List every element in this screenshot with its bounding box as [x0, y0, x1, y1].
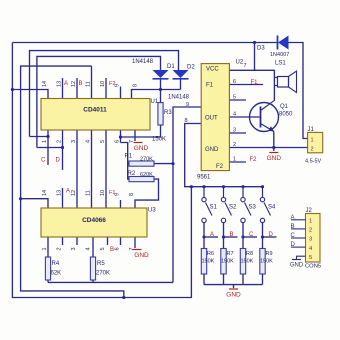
svg-text:4: 4: [86, 247, 92, 250]
wire CD4011 pin 9 stub: [120, 87, 122, 99]
svg-text:S1: S1: [210, 205, 218, 211]
wire U2 pin 1 stub net F2: [229, 161, 246, 163]
svg-text:D: D: [56, 158, 61, 164]
wire riser to R1 left: [128, 163, 129, 165]
wire CD4066 pin 14 feed: [21, 199, 48, 208]
resistor R5 270K: [90, 257, 95, 280]
node junction pin2: [61, 146, 64, 149]
wire CD4066 pin 4 to R5: [92, 237, 94, 257]
svg-text:B: B: [230, 232, 234, 238]
wire bottom rail R4 R5: [48, 281, 173, 283]
node junction rail S3: [241, 185, 244, 188]
wire node C tick: [243, 236, 257, 238]
svg-text:R9: R9: [266, 251, 273, 257]
wire VCC top rail: [12, 42, 277, 44]
wire R8 bottom: [242, 274, 244, 285]
svg-text:CON5: CON5: [305, 264, 321, 270]
wire switch resistor ground rail: [204, 284, 263, 286]
svg-text:1: 1: [233, 157, 236, 163]
svg-text:7: 7: [129, 247, 135, 250]
wire node A tick: [204, 236, 218, 238]
wire J2 pin2 stub net B: [291, 228, 306, 230]
svg-text:R7: R7: [227, 251, 234, 257]
svg-text:CD4011: CD4011: [83, 107, 107, 114]
svg-text:A: A: [291, 215, 295, 221]
svg-text:S3: S3: [249, 205, 257, 211]
node junction R1 right: [171, 162, 174, 165]
wire R9 bottom: [262, 274, 264, 285]
wire net pin11/CD4066-pin14 vertical x=20.6: [21, 66, 124, 297]
wire S1 to node: [203, 223, 205, 249]
wire outer left VCC loop down and to switch rail riser: [12, 43, 191, 298]
wire U2 pin 6 stub net F1: [229, 84, 263, 86]
wire CD4066 pin 7 stub to ground: [134, 237, 136, 248]
svg-text:D3: D3: [257, 46, 265, 52]
svg-text:10: 10: [100, 81, 106, 87]
wire U2 pin 2 to J1 pin 2: [229, 147, 307, 149]
svg-text:R3: R3: [164, 110, 172, 116]
svg-text:LS1: LS1: [275, 61, 286, 67]
svg-text:5: 5: [309, 255, 312, 261]
ground CD4011 pin7: [134, 143, 149, 153]
svg-text:8: 8: [133, 84, 139, 87]
wire J2 pin1 stub net A: [291, 219, 306, 221]
switch S2: [221, 187, 237, 223]
svg-text:A: A: [210, 232, 214, 238]
wire CD4011 pin4 to CD4066 pin11: [91, 130, 93, 208]
svg-text:C: C: [249, 232, 254, 238]
svg-text:R2: R2: [128, 171, 136, 177]
wire U2 pin 5 stub: [229, 99, 246, 101]
svg-text:8: 8: [129, 193, 135, 196]
svg-text:270K: 270K: [140, 157, 153, 163]
svg-text:6: 6: [115, 247, 121, 250]
wire R1 R2 left riser: [121, 143, 130, 180]
IC U3 CD4066: [41, 208, 147, 237]
wire R2 right to CD4066 pin 8: [135, 179, 159, 208]
wire CD4011 pin 11 stub: [91, 66, 93, 98]
wire U2 pin 9: [173, 107, 201, 282]
svg-text:3: 3: [71, 140, 77, 143]
svg-text:150K: 150K: [202, 258, 215, 264]
wire CD4011 pin 2 stub with net D: [62, 130, 64, 170]
wire J2 pin3 stub net C: [291, 237, 306, 239]
wire S2 to node: [223, 223, 225, 249]
svg-text:J2: J2: [306, 208, 313, 214]
svg-text:B: B: [110, 247, 114, 253]
svg-text:GND: GND: [134, 252, 149, 259]
wire R7 bottom: [223, 274, 225, 285]
svg-text:150K: 150K: [221, 258, 234, 264]
wire J2 pin5 stub to ground: [297, 256, 306, 259]
wire R5 bottom lead: [92, 280, 94, 282]
switch S1: [202, 187, 218, 223]
svg-text:F1: F1: [206, 83, 214, 89]
wire U2 pin7 node to speaker: [255, 70, 275, 101]
diode D3 1N4007: [278, 36, 289, 50]
svg-text:D: D: [291, 242, 296, 248]
wire CD4011 pin5 to CD4066 pin10 net F1: [105, 130, 107, 208]
svg-text:8050: 8050: [279, 112, 293, 118]
resistor R4 62K: [45, 257, 50, 280]
node junction on bottom line: [122, 296, 125, 299]
svg-text:R8: R8: [246, 251, 253, 257]
svg-text:F2: F2: [250, 157, 258, 163]
resistor R1: [129, 161, 154, 166]
wire D2 cathode: [180, 79, 182, 90]
node junction C: [241, 235, 244, 238]
svg-text:A: A: [64, 81, 68, 87]
wire J2 pin4 stub net D: [291, 246, 306, 248]
svg-text:13: 13: [57, 190, 63, 196]
svg-text:11: 11: [86, 190, 92, 196]
wire CD4011 pin 1 stub with net C: [47, 130, 49, 165]
connector J1: [308, 132, 323, 152]
svg-text:150K: 150K: [241, 258, 254, 264]
wire U2 pin 7 VCC: [229, 43, 254, 71]
svg-text:7: 7: [129, 140, 135, 143]
ground J2 GND: [290, 260, 304, 269]
diode D2 1N4148: [173, 70, 189, 79]
svg-text:D2: D2: [187, 65, 195, 71]
svg-text:F1: F1: [109, 190, 115, 196]
node junction D1 cathode: [159, 88, 162, 91]
node junction rail S1: [202, 185, 205, 188]
wire top rail right segment to J1 riser: [289, 43, 308, 139]
wire node B tick: [224, 236, 238, 238]
wire CD4066 pin 2 stub: [62, 237, 64, 245]
svg-text:150K: 150K: [260, 258, 273, 264]
svg-text:S2: S2: [229, 205, 237, 211]
wire R1 right to U2 pin9 net: [154, 163, 173, 165]
svg-text:9: 9: [186, 102, 189, 108]
svg-text:12: 12: [71, 190, 77, 196]
resistor R3 150K: [158, 103, 163, 125]
svg-text:4.5-5V: 4.5-5V: [305, 159, 322, 165]
wire pin2 to riser: [37, 147, 63, 149]
svg-text:C: C: [291, 233, 296, 239]
svg-text:3: 3: [309, 237, 312, 243]
svg-text:2: 2: [57, 247, 63, 250]
switch S3: [241, 187, 257, 223]
svg-text:F1: F1: [251, 80, 259, 86]
svg-text:2: 2: [233, 142, 236, 148]
wire S4 to node: [262, 223, 264, 249]
ground switch resistors: [226, 289, 241, 299]
wire CD4011 pin 7 stub to ground: [134, 130, 136, 141]
svg-text:3: 3: [233, 128, 236, 134]
svg-text:4: 4: [233, 112, 236, 118]
svg-text:OUT: OUT: [205, 116, 218, 122]
transistor Q1 8050: [250, 101, 279, 132]
svg-text:Q1: Q1: [280, 104, 289, 110]
wire Q1 emitter to ground: [273, 132, 275, 152]
wire CD4011 pin 14 feed: [12, 90, 48, 99]
svg-text:5: 5: [100, 140, 106, 143]
svg-text:1: 1: [309, 219, 312, 225]
diode D1 1N4148: [153, 70, 169, 79]
wire pin1 to riser: [30, 136, 49, 138]
wire CD4011 pin 6 stub: [120, 130, 122, 143]
svg-text:1N4148: 1N4148: [168, 95, 190, 101]
svg-text:CD4066: CD4066: [82, 217, 106, 224]
node junction switch rail riser: [190, 185, 193, 188]
svg-text:14: 14: [42, 190, 48, 196]
svg-text:1: 1: [42, 247, 48, 250]
node junction B: [222, 235, 225, 238]
wire CD4066 pin 5 stub net B: [107, 237, 109, 245]
node junction D: [261, 235, 264, 238]
resistor R8: [240, 249, 253, 275]
svg-text:1N4148: 1N4148: [132, 59, 154, 65]
wire CD4011 pin 12 stub: [76, 78, 78, 99]
svg-text:R6: R6: [207, 251, 214, 257]
node junction rail S2: [222, 185, 225, 188]
svg-text:F2: F2: [109, 81, 115, 87]
ground Q1 emitter: [267, 153, 282, 163]
svg-text:GND: GND: [290, 263, 304, 269]
switch S4: [260, 187, 276, 223]
svg-text:2: 2: [309, 228, 312, 234]
node junction A: [202, 235, 205, 238]
svg-text:620K: 620K: [140, 172, 153, 178]
node junction rail S4: [261, 185, 264, 188]
node junction pin6: [119, 135, 122, 138]
svg-text:11: 11: [86, 81, 92, 87]
svg-text:GND: GND: [205, 147, 219, 153]
svg-text:J1: J1: [308, 127, 315, 133]
wire CD4011 pin3 to CD4066 pin12: [76, 130, 78, 208]
wire S3 to node: [242, 223, 244, 249]
svg-text:GND: GND: [267, 155, 282, 162]
svg-text:R1: R1: [125, 154, 133, 160]
resistor R2: [129, 177, 154, 182]
svg-text:3: 3: [71, 247, 77, 250]
svg-text:7: 7: [244, 63, 247, 69]
wire U2 pin 8 to switch rail: [185, 124, 263, 187]
svg-text:VCC: VCC: [206, 67, 219, 73]
wire CD4011 pin 13 stub: [62, 78, 64, 99]
svg-text:B: B: [291, 224, 295, 230]
svg-text:1N4007: 1N4007: [270, 52, 289, 58]
svg-text:C: C: [41, 158, 46, 164]
svg-text:6: 6: [115, 140, 121, 143]
IC U1 CD4011: [41, 99, 150, 131]
node junction pin1: [46, 135, 49, 138]
svg-text:D1: D1: [167, 64, 175, 70]
node junction pin14 feed: [11, 88, 14, 91]
wire CD4066 pin 9 stub: [120, 200, 122, 208]
svg-text:2: 2: [311, 147, 314, 153]
svg-text:R5: R5: [97, 261, 105, 267]
wire D2 anode net from CD4011 pin 1: [30, 51, 179, 137]
speaker LS1: [274, 71, 296, 93]
svg-text:1: 1: [311, 138, 314, 144]
svg-text:13: 13: [57, 81, 63, 87]
svg-text:5: 5: [233, 95, 236, 101]
wire R6 bottom: [203, 274, 205, 285]
wire CD4066 pin 6 stub: [120, 237, 122, 245]
wire CD4066 pin 3 stub: [76, 237, 78, 245]
resistor R6: [201, 249, 214, 275]
wire D1 cathode to R3 top: [160, 79, 162, 103]
svg-text:8: 8: [185, 118, 188, 124]
svg-text:1: 1: [42, 140, 48, 143]
wire R3 bottom to CD4011 pin 6: [121, 125, 161, 137]
svg-text:A: A: [66, 189, 70, 195]
ground CD4066 pin7: [133, 250, 150, 260]
svg-text:10: 10: [100, 190, 106, 196]
node junction CD4066 pin14 feed: [19, 197, 22, 200]
svg-text:4: 4: [86, 140, 92, 143]
svg-text:62K: 62K: [51, 271, 62, 277]
wire CD4011 pin 8 to diode cathodes and R3: [132, 90, 181, 99]
svg-text:GND: GND: [134, 145, 149, 152]
svg-text:D: D: [269, 232, 274, 238]
wire R4 bottom lead: [47, 280, 49, 282]
node VCC junction at U2 pin7 riser: [253, 41, 256, 44]
resistor R9: [260, 249, 273, 275]
svg-text:5: 5: [100, 247, 106, 250]
svg-text:R4: R4: [52, 261, 60, 267]
svg-text:F2: F2: [216, 164, 224, 170]
wire CD4011 pin 10 stub: [105, 78, 107, 99]
svg-text:6: 6: [233, 79, 236, 85]
svg-text:2: 2: [57, 140, 63, 143]
connector J2 CON5: [306, 214, 321, 263]
svg-text:14: 14: [42, 81, 48, 87]
wire U2 pin 3 stub: [229, 132, 246, 134]
resistor R7: [221, 249, 234, 275]
svg-text:9561: 9561: [197, 175, 211, 181]
node junction emitter ground: [272, 146, 275, 149]
wire CD4066 pin 13 stub with net A: [62, 188, 64, 208]
wire ground stem: [233, 285, 235, 288]
wire CD4066 pin 1 to R4: [47, 237, 49, 257]
wire node D tick: [263, 236, 277, 238]
svg-text:GND: GND: [226, 292, 241, 299]
svg-text:S4: S4: [268, 205, 276, 211]
wire D1 anode net from CD4011 pin 2: [37, 56, 161, 147]
svg-text:150K: 150K: [152, 137, 166, 143]
IC U2 9561 sound generator: [201, 64, 229, 171]
svg-text:U3: U3: [148, 208, 156, 214]
svg-text:270K: 270K: [96, 271, 110, 277]
svg-text:12: 12: [71, 81, 77, 87]
wire U2 pin 4 to Q1 base: [229, 116, 259, 118]
svg-text:B: B: [79, 81, 83, 87]
